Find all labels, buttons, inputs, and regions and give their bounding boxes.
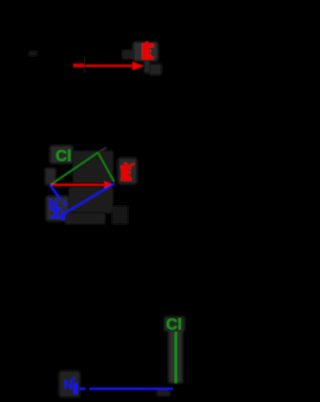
Cl label middle (green) xyxy=(56,148,72,165)
faint double-bond streak at peak xyxy=(98,148,107,153)
svg-text:Cl: Cl xyxy=(166,317,182,334)
halo strip below top O- glyph xyxy=(144,60,150,73)
halo under middle arrow xyxy=(69,187,113,213)
halo left of top arrowhead xyxy=(122,50,133,59)
halo strips flanking bottom C-Cl bond xyxy=(169,330,183,383)
halo around bottom Cl label xyxy=(164,317,185,332)
halo smudge right of top arrowhead xyxy=(150,64,162,75)
O- glyph middle (red O with charge) xyxy=(121,162,135,181)
halo faint below middle vertex xyxy=(112,206,128,224)
curved-arrow (red) middle: arrowhead xyxy=(105,181,114,188)
faint bond crossing top arrow xyxy=(84,57,86,73)
N+ label middle (blue) xyxy=(49,197,69,220)
halo below bottom bond corner xyxy=(157,390,170,396)
bond N-C middle (blue diagonal up-right) xyxy=(63,184,115,215)
svg-text:+: + xyxy=(62,199,68,210)
halo around middle Cl label xyxy=(50,146,73,164)
halo around middle N label xyxy=(46,196,69,221)
N+ label bottom (blue) xyxy=(64,375,78,395)
curved-arrow (red) middle: shaft xyxy=(52,184,107,186)
bond C-N middle (blue diagonal into N) xyxy=(50,185,61,200)
bond C-C middle (green diagonal down) xyxy=(98,153,114,182)
bond N=C bottom (blue horizontal) xyxy=(80,388,173,390)
bond C-Cl middle (green diagonal up) xyxy=(51,153,98,185)
bond C-Cl bottom (green vertical) xyxy=(175,332,177,383)
halo around middle O- glyph xyxy=(118,158,137,184)
Cl label bottom (green) xyxy=(166,317,182,334)
svg-text:+: + xyxy=(71,375,76,384)
curved-arrow (red) top: arrowhead xyxy=(133,62,144,70)
halo block around top O- glyph xyxy=(133,42,158,61)
faint mark top-left xyxy=(29,51,37,56)
halo faint below middle cluster xyxy=(65,213,105,224)
svg-text:Cl: Cl xyxy=(56,148,72,165)
curved-arrow (red) top: horizontal shaft xyxy=(74,64,135,67)
halo block right of middle Cl xyxy=(73,151,113,183)
O- glyph top (red O with charge) xyxy=(142,41,154,59)
halo around bottom N label xyxy=(59,371,80,397)
halo strip left above middle N xyxy=(45,168,56,185)
